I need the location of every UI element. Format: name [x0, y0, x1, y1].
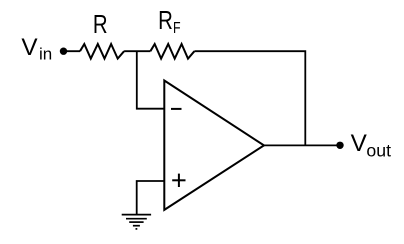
- wire noninverting input to ground: [137, 181, 165, 215]
- resistor R: [80, 44, 124, 59]
- svg-text:out: out: [366, 141, 391, 161]
- node Vout dot: [336, 142, 343, 149]
- svg-text:V: V: [21, 34, 38, 61]
- svg-text:in: in: [39, 45, 52, 64]
- wire junction to inverting input: [137, 51, 165, 108]
- wire R to RF: [124, 50, 150, 52]
- op-amp plus sign: [172, 174, 185, 187]
- resistor RF label: [158, 6, 180, 37]
- svg-text:R: R: [158, 6, 173, 35]
- node Vin dot: [60, 48, 67, 55]
- ground: [122, 215, 151, 229]
- svg-text:F: F: [173, 19, 181, 37]
- svg-text:V: V: [351, 130, 368, 157]
- svg-text:R: R: [93, 10, 108, 39]
- wire feedback: [194, 51, 305, 145]
- op-amp U1: [164, 81, 264, 210]
- op-amp minus sign: [171, 108, 182, 110]
- resistor RF: [150, 44, 194, 59]
- wire Vin to R: [64, 50, 81, 52]
- wire output: [264, 144, 340, 146]
